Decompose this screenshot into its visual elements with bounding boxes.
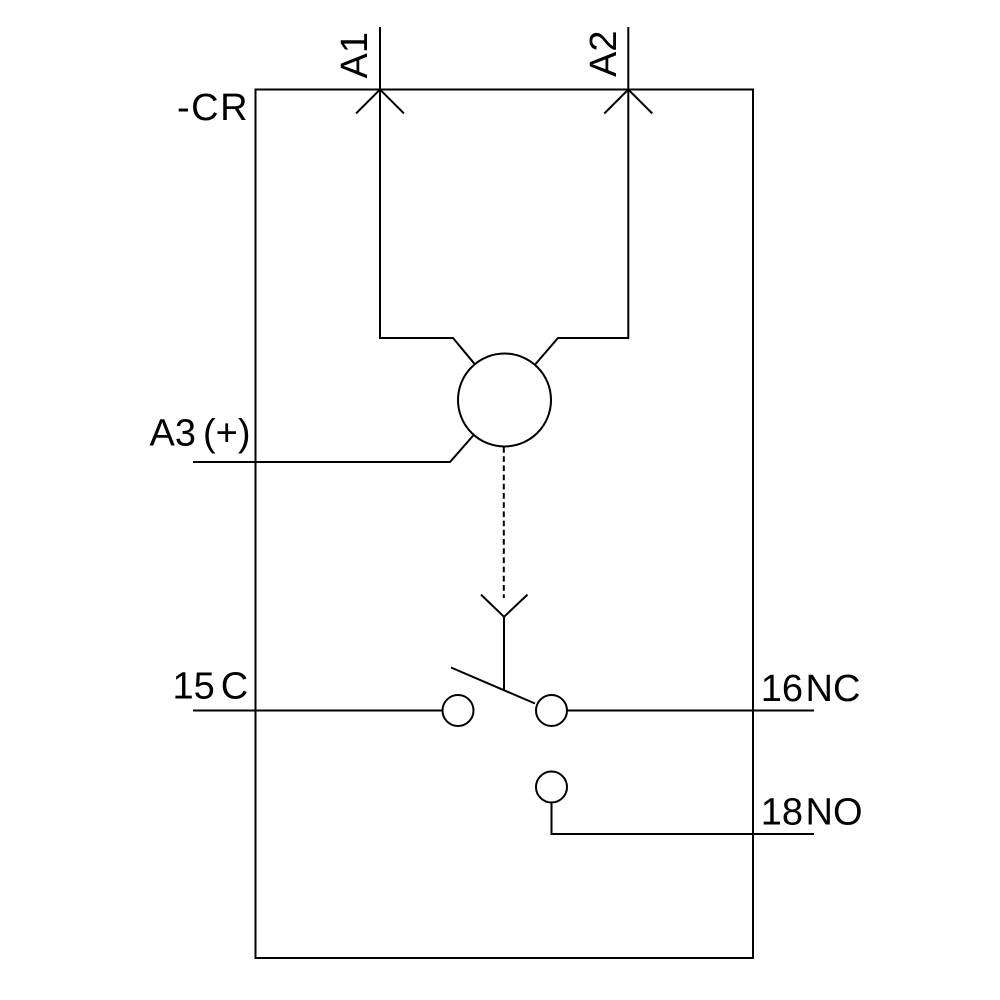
svg-text:A2: A2 <box>583 31 625 77</box>
svg-text:18: 18 <box>761 792 803 834</box>
svg-text:16: 16 <box>761 668 803 710</box>
svg-text:(+): (+) <box>203 413 251 455</box>
svg-text:NO: NO <box>806 792 863 834</box>
svg-text:-CR: -CR <box>177 87 249 129</box>
svg-text:15: 15 <box>173 666 215 708</box>
svg-text:NC: NC <box>806 668 861 710</box>
svg-text:A1: A1 <box>334 32 376 78</box>
svg-text:A3: A3 <box>150 413 196 455</box>
svg-text:C: C <box>221 666 248 708</box>
